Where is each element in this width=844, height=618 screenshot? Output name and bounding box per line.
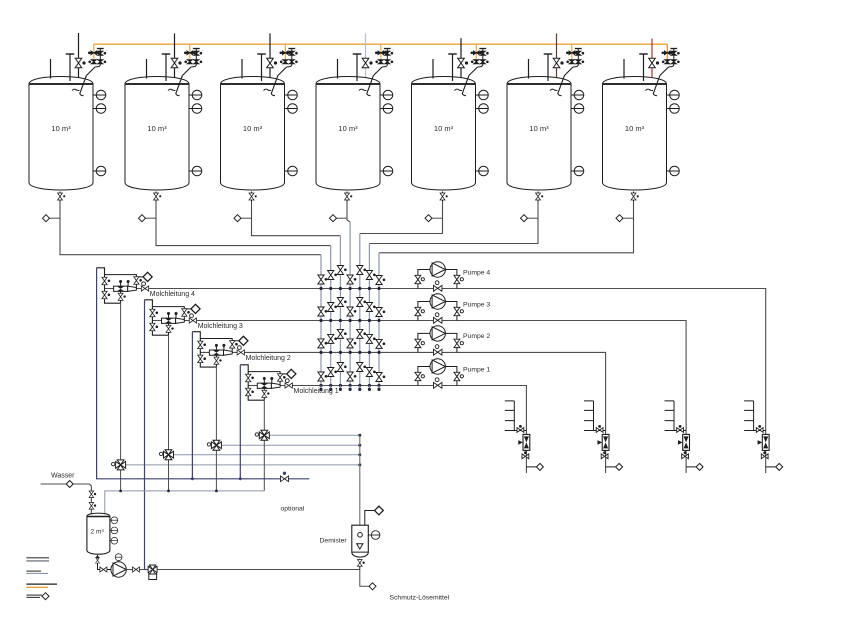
node: manifold junction row 4 col 1 xyxy=(319,384,322,387)
valve: drain stub diamond tank 1 xyxy=(50,217,61,219)
wire: tank 5 to manifold column 5 xyxy=(360,202,443,234)
svg-text:Wasser: Wasser xyxy=(51,473,75,480)
svg-text:Molchleitung 1: Molchleitung 1 xyxy=(294,388,339,395)
valve: manifold row 1 col 5 xyxy=(357,266,366,275)
wire: row line 2 (Pumpe 3) with right-side drop xyxy=(152,321,686,474)
node: manifold junction row 2 col 1 xyxy=(319,319,322,322)
wire: orange drop tank 1 xyxy=(93,44,95,64)
pump assembly Pumpe 1 xyxy=(415,359,463,388)
wire: utility riser tank 7 xyxy=(651,39,653,83)
wire: left stub group 2 xyxy=(26,570,41,572)
valve: manifold row 1 col 3 xyxy=(337,266,346,275)
valve: manifold row 4 col 7 xyxy=(376,373,385,382)
wire: utility riser tank 1 xyxy=(78,33,80,83)
wire: Wasser inlet line xyxy=(41,484,92,514)
node: header junction 1 xyxy=(358,434,361,437)
wire: left stub group 1 xyxy=(26,557,49,559)
vessel: Demister xyxy=(352,525,369,557)
pump assembly Pumpe 3 xyxy=(415,294,463,323)
wire: column 1 bottom stub xyxy=(320,386,322,390)
valve: Demister drain xyxy=(359,559,361,570)
wire: manifold column 1 xyxy=(320,255,322,391)
tank T1 (10 m³) xyxy=(29,49,106,202)
node: manifold junction row 4 col 4 xyxy=(349,384,352,387)
wire: navy line Molchleitung 3 down to solvent valve xyxy=(145,300,149,570)
wire: buffer tank outlet xyxy=(98,555,111,570)
wire: navy line Molchleitung 4 (down + horizontal header) xyxy=(97,268,310,479)
wire: tank 3 to manifold column 3 xyxy=(252,202,341,236)
wire: tank 4 to manifold column 4 xyxy=(347,202,350,223)
wire: manifold column 6 xyxy=(368,244,370,391)
valve: manifold row 1 col 4 xyxy=(347,275,356,284)
valve: pump suction xyxy=(100,567,107,572)
wire: orange drop tank 3 xyxy=(284,44,286,64)
valve: manifold row 3 col 2 xyxy=(328,334,337,343)
node: manifold junction row 2 col 3 xyxy=(339,319,342,322)
node: manifold junction row 2 col 6 xyxy=(368,319,371,322)
pig launcher station Molchleitung 4 xyxy=(97,268,153,303)
wire: cross-valve header 4 xyxy=(121,464,360,466)
wire: manifold column 2 xyxy=(330,246,332,391)
pig launcher station Molchleitung 3 xyxy=(145,300,201,335)
wire: column 2 bottom stub xyxy=(330,386,332,390)
valve: manifold row 4 col 4 xyxy=(347,372,356,381)
node: manifold junction row 1 col 4 xyxy=(349,287,352,290)
wire: orange drop tank 7 xyxy=(666,44,668,64)
wire: column 6 bottom stub xyxy=(368,386,370,390)
wire: manifold column 5 xyxy=(359,234,361,391)
wire: row line 1 (Pumpe 4) with right-side drop xyxy=(105,289,766,474)
wire: tank 7 to manifold column 7 xyxy=(379,202,634,253)
valve: manifold row 1 col 7 xyxy=(376,276,385,285)
gauge on 2 m³ tank xyxy=(110,519,112,521)
node: header junction 4 xyxy=(358,463,361,466)
distribution drop assembly 1 xyxy=(505,401,544,471)
valve: manifold row 3 col 6 xyxy=(366,334,375,343)
wire: manifold column 7 xyxy=(378,253,380,391)
node: manifold junction row 1 col 6 xyxy=(368,287,371,290)
wire: utility riser tank 5 xyxy=(460,38,462,83)
node: manifold junction row 4 col 5 xyxy=(358,384,361,387)
svg-text:2 m³: 2 m³ xyxy=(91,529,105,536)
tank T4 (10 m³) xyxy=(316,49,393,202)
wire: row line 3 (Pumpe 2) with right-side drop xyxy=(200,352,605,473)
node: manifold junction row 1 col 3 xyxy=(339,287,342,290)
wire: orange drop tank 4 xyxy=(380,44,382,64)
wire: column 5 bottom stub xyxy=(359,386,361,390)
node: manifold junction row 2 col 7 xyxy=(377,319,380,322)
valve: manifold row 3 col 5 xyxy=(357,329,366,338)
wire: utility riser tank 6 xyxy=(556,33,558,83)
tank T7 (10 m³) xyxy=(603,49,680,202)
wire: tank 2 to manifold column 2 xyxy=(156,202,331,246)
node: manifold junction row 3 col 1 xyxy=(319,351,322,354)
tank T2 (10 m³) xyxy=(125,49,202,202)
wire: column 7 bottom stub xyxy=(378,386,380,390)
wire: Demister vent stub + diamond xyxy=(365,511,375,526)
valve: manifold row 1 col 2 xyxy=(328,271,337,280)
distribution drop assembly 2 xyxy=(584,401,623,471)
wire: drain Molchleitung 2 xyxy=(215,367,217,491)
pump assembly Pumpe 4 xyxy=(415,262,463,291)
valve: manifold row 2 col 4 xyxy=(347,307,356,316)
wire: navy line Molchleitung 1 xyxy=(239,365,241,479)
node: manifold junction row 4 col 7 xyxy=(377,384,380,387)
svg-text:Pumpe 3: Pumpe 3 xyxy=(463,301,490,308)
valve: manifold row 2 col 7 xyxy=(376,308,385,317)
wire: orange vent header xyxy=(94,43,668,45)
valve: drain stub diamond tank 7 xyxy=(623,217,634,219)
node: manifold junction row 3 col 2 xyxy=(329,351,332,354)
wire: column 3 bottom stub xyxy=(339,386,341,390)
gauge above pump xyxy=(118,560,120,563)
valve: pump discharge xyxy=(132,567,139,572)
wire: cross-valve header 1 xyxy=(264,434,360,436)
tank T3 (10 m³) xyxy=(221,49,298,202)
node: manifold junction row 4 col 6 xyxy=(368,384,371,387)
svg-text:Pumpe 4: Pumpe 4 xyxy=(463,269,490,276)
distribution drop assembly 4 xyxy=(744,401,783,471)
node: header junction 2 xyxy=(358,444,361,447)
svg-text:Molchleitung 3: Molchleitung 3 xyxy=(198,323,243,330)
wire: utility riser tank 3 xyxy=(269,33,271,83)
wire: column 4 bottom stub xyxy=(349,386,351,390)
valve: navy header isolation valve xyxy=(281,476,289,482)
svg-text:optional: optional xyxy=(281,506,305,513)
node: manifold junction row 3 col 7 xyxy=(377,351,380,354)
valve: drain stub diamond tank 6 xyxy=(528,217,539,219)
node: manifold junction row 3 col 5 xyxy=(358,351,361,354)
valve: manifold row 3 col 1 xyxy=(318,339,327,348)
svg-text:Molchleitung 2: Molchleitung 2 xyxy=(246,355,291,362)
wire: drain Molchleitung 4 xyxy=(120,303,122,491)
gauge on 2 m³ tank xyxy=(110,540,112,542)
valve: drain stub diamond tank 2 xyxy=(146,217,157,219)
wire: utility riser tank 2 xyxy=(174,33,176,83)
valve: Wasser drop valve 1 xyxy=(89,491,94,498)
valve: manifold row 1 col 6 xyxy=(366,271,375,280)
wire: tank 6 to manifold column 6 xyxy=(369,202,538,244)
node: manifold junction row 3 col 6 xyxy=(368,351,371,354)
valve: solvent cross valve with housing xyxy=(149,566,157,579)
valve: drain stub diamond tank 4 xyxy=(337,217,348,219)
wire: drain collection header to buffer tank xyxy=(105,491,264,514)
tank: 2 m³ buffer xyxy=(87,513,110,554)
node: manifold junction row 2 col 4 xyxy=(349,319,352,322)
svg-text:Molchleitung 4: Molchleitung 4 xyxy=(150,291,195,298)
valve: manifold row 1 col 1 xyxy=(318,275,327,284)
wire: solvent outlet + diamond xyxy=(360,570,369,587)
svg-text:Pumpe 2: Pumpe 2 xyxy=(463,333,490,340)
wire: pump discharge line xyxy=(126,569,359,571)
valve: manifold row 4 col 3 xyxy=(337,363,346,372)
node: manifold junction row 1 col 5 xyxy=(358,287,361,290)
wire: orange drop tank 2 xyxy=(189,44,191,64)
svg-text:Demister: Demister xyxy=(320,538,348,545)
node: header junction 3 xyxy=(358,453,361,456)
valve: manifold row 2 col 2 xyxy=(328,303,337,312)
tank T5 (10 m³) xyxy=(412,49,489,202)
valve: 4-way cross 1 xyxy=(259,430,269,440)
node: manifold junction row 4 col 3 xyxy=(339,384,342,387)
valve: manifold row 4 col 6 xyxy=(366,368,375,377)
wire: drain Molchleitung 1 xyxy=(263,400,265,491)
wire: cross-valve header 3 xyxy=(169,454,360,456)
wire: navy line Molchleitung 2 xyxy=(191,332,193,479)
wire: drain Molchleitung 3 xyxy=(168,335,170,491)
svg-text:Schmutz-Lösemittel: Schmutz-Lösemittel xyxy=(390,595,450,602)
valve: 4-way cross 2 xyxy=(211,440,221,450)
node: manifold junction row 4 col 2 xyxy=(329,384,332,387)
valve: buffer outlet xyxy=(96,557,100,563)
wire: orange drop tank 6 xyxy=(571,44,573,64)
pump assembly Pumpe 2 xyxy=(415,326,463,355)
svg-text:Pumpe 1: Pumpe 1 xyxy=(463,366,490,373)
wire: tank 1 to manifold column 1 xyxy=(60,202,321,255)
tank T6 (10 m³) xyxy=(507,49,584,202)
valve: manifold row 3 col 4 xyxy=(347,339,356,348)
wire: utility riser tank 4 xyxy=(365,33,367,83)
valve: manifold row 4 col 1 xyxy=(318,372,327,381)
wire: manifold column 3 xyxy=(339,236,341,391)
valve: manifold row 4 col 5 xyxy=(357,363,366,372)
wire: left stub group 4 with diamond xyxy=(26,594,42,596)
wire: header to Demister vertical xyxy=(359,435,361,526)
valve: drain stub diamond tank 5 xyxy=(432,217,443,219)
gauge on Demister xyxy=(368,534,371,536)
valve: manifold row 3 col 3 xyxy=(337,329,346,338)
node: manifold junction row 2 col 2 xyxy=(329,319,332,322)
pig launcher station Molchleitung 1 xyxy=(240,365,296,400)
node: manifold junction row 1 col 2 xyxy=(329,287,332,290)
gauge on 2 m³ tank xyxy=(110,529,112,531)
valve: manifold row 4 col 2 xyxy=(328,368,337,377)
valve: manifold row 2 col 6 xyxy=(366,303,375,312)
wire: orange drop tank 5 xyxy=(475,44,477,64)
valve: Wasser diamond xyxy=(66,481,73,488)
distribution drop assembly 3 xyxy=(665,401,704,471)
valve: manifold row 3 col 7 xyxy=(376,339,385,348)
valve: manifold row 2 col 1 xyxy=(318,307,327,316)
pump: solvent transfer pump xyxy=(111,562,126,577)
valve: 4-way cross 3 xyxy=(164,450,174,460)
valve: Wasser drop valve 2 xyxy=(89,503,94,510)
valve: 4-way cross 4 xyxy=(116,460,126,470)
wire: left stub group 3 xyxy=(26,583,57,585)
valve: manifold row 2 col 5 xyxy=(357,298,366,307)
node: manifold junction row 1 col 1 xyxy=(319,287,322,290)
wire: manifold column 4 xyxy=(349,222,351,391)
node: manifold junction row 2 col 5 xyxy=(358,319,361,322)
node: manifold junction row 3 col 4 xyxy=(349,351,352,354)
node: manifold junction row 1 col 7 xyxy=(377,287,380,290)
wire: cross-valve header 2 xyxy=(216,444,359,446)
valve: manifold row 2 col 3 xyxy=(337,298,346,307)
node: manifold junction row 3 col 3 xyxy=(339,351,342,354)
pig launcher station Molchleitung 2 xyxy=(192,332,248,367)
valve: drain stub diamond tank 3 xyxy=(241,217,252,219)
wire: row line 4 (Pumpe 1) with right-side drop xyxy=(248,386,526,474)
